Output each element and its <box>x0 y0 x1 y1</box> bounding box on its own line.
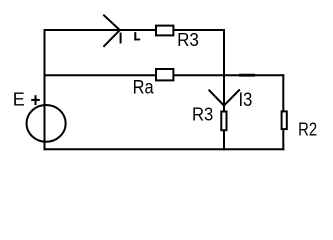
resistor R3 (vertical) <box>221 112 226 131</box>
wire: right vertical branch with R2 <box>282 74 284 150</box>
label L <box>134 32 136 40</box>
wire: middle horizontal from node at left branch to right branch <box>44 74 285 76</box>
current arrow I_L on top wire <box>103 15 119 30</box>
resistor R2 <box>282 111 287 129</box>
source E circle <box>27 105 66 142</box>
svg-text:I3: I3 <box>239 90 253 111</box>
junction: thick segment on middle wire <box>239 74 255 77</box>
current arrow I3 on center branch <box>209 90 224 106</box>
svg-text:R2: R2 <box>298 118 317 139</box>
svg-text:R3: R3 <box>177 30 199 50</box>
resistor R3 (top) <box>156 26 173 36</box>
svg-text:R3: R3 <box>192 104 213 124</box>
polarity + <box>31 99 40 101</box>
wire: bottom horizontal return <box>44 148 285 150</box>
svg-text:Ra: Ra <box>133 77 154 98</box>
wire: top horizontal from left corner to right corner <box>44 29 226 31</box>
svg-text:E: E <box>13 90 25 110</box>
wire: center vertical branch with R3 <box>223 29 225 150</box>
label I <box>120 33 122 44</box>
resistor Ra <box>156 69 173 80</box>
wire: left vertical branch (through source E) <box>44 29 46 150</box>
